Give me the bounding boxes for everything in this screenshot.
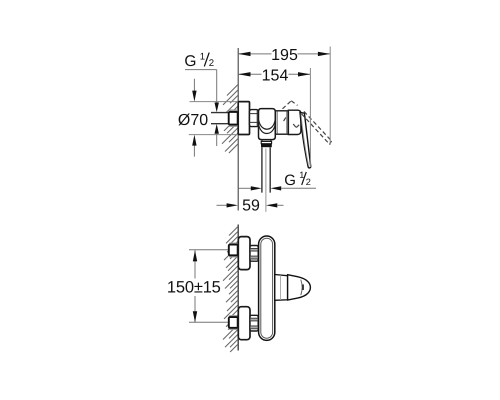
svg-text:G: G: [184, 53, 196, 70]
wall hatching (side view): [222, 85, 238, 154]
G 1/2 leader line: [185, 70, 217, 103]
upper escutcheon: [238, 237, 250, 270]
svg-text:2: 2: [209, 58, 214, 69]
mixer body (side view): [259, 109, 276, 140]
handle knob cap seam: [301, 280, 302, 296]
union nut in wall (side view): [229, 112, 238, 125]
dimension 195 line: [238, 53, 330, 55]
lower escutcheon: [238, 307, 250, 340]
dimension 150±15 arrowheads: [193, 250, 197, 261]
mixer body capsule outer: [259, 236, 275, 340]
outlet adapter (side view): [262, 140, 271, 142]
outlet nut black band: [261, 144, 272, 147]
cartridge collar (side view): [275, 111, 288, 135]
supply pipe stub G1/2 (in wall): [211, 113, 229, 124]
svg-text:1: 1: [200, 52, 205, 63]
svg-text:G: G: [284, 172, 296, 189]
lower s-union nut: [250, 315, 258, 331]
handle hub (side view): [288, 110, 301, 134]
dimension 195 extension line: [329, 47, 331, 145]
lower union nut chamfer shading: [229, 315, 237, 318]
escutcheon Ø70 (side view): [238, 102, 249, 135]
shower outlet thread G1/2 (side view): [262, 147, 270, 192]
handle stem (end view): [275, 275, 288, 301]
upper union nut (through wall): [229, 245, 238, 256]
lever handle phantom (dashed, raised position): [283, 101, 332, 145]
supply stub lower (extension line 150): [189, 321, 229, 323]
wall face line (side view): [237, 48, 239, 211]
outlet centerline: [265, 149, 267, 212]
label G 1/2 (top, supply): [184, 52, 214, 70]
body dome seam arcs: [259, 120, 275, 129]
dimension 154 line: [238, 73, 310, 75]
dimension 195 arrowheads: [238, 52, 250, 56]
white mask over supply pipe region: [210, 113, 238, 123]
dimension 154 extension line: [309, 68, 311, 167]
dimension 154 arrowheads: [238, 72, 250, 76]
upper union nut chamfer shading: [229, 243, 237, 246]
upper s-union nut: [250, 246, 258, 262]
s-union nut (side view): [250, 110, 259, 127]
supply stub upper (extension line 150): [189, 249, 229, 251]
G 1/2 arrowheads at pipe: [215, 103, 219, 113]
svg-text:154: 154: [262, 67, 289, 84]
svg-text:2: 2: [306, 177, 311, 187]
wall face line (bottom view): [237, 225, 239, 351]
dimension 150±15 line: [194, 250, 196, 322]
lower union nut (through wall): [229, 317, 238, 328]
svg-text:59: 59: [242, 197, 260, 214]
handle knob mark: [302, 284, 304, 290]
svg-text:150±15: 150±15: [167, 279, 221, 297]
dimension 59 line left + arrowhead: [217, 204, 228, 206]
dimension Ø70 line + arrowheads: [193, 79, 195, 157]
union nut chamfer shading (side view): [229, 109, 237, 112]
label G 1/2 (outlet) dimension lines: [238, 187, 251, 189]
dimension Ø70 extension lines: [189, 102, 238, 135]
svg-text:195: 195: [271, 47, 298, 64]
mixer body capsule inner contour: [261, 238, 273, 338]
svg-text:Ø70: Ø70: [178, 112, 208, 129]
dimension 59 right arrowhead + line: [266, 203, 277, 207]
handle knob (end view): [288, 275, 311, 300]
lever handle solid (side view): [300, 113, 311, 168]
wall hatching (bottom view): [223, 227, 238, 353]
label G 1/2 (outlet) text: [284, 170, 311, 189]
